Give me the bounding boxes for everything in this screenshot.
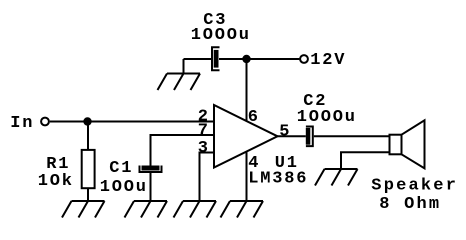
resistor R1 — [82, 150, 95, 188]
wire pin 4 — [246, 152, 248, 201]
label 12V net — [310, 51, 346, 70]
wire pin 3 — [200, 153, 215, 202]
wire R1 bottom — [87, 189, 89, 201]
label C2 value 1000u — [297, 108, 357, 127]
wire top rail right (C3 to 12V terminal) — [219, 58, 299, 60]
wire input rail (In terminal to pin 2) — [50, 121, 214, 123]
wire pin 5 (op-amp output to C2) — [278, 135, 306, 137]
pin number 5 — [279, 123, 291, 142]
wire C2 to speaker — [314, 135, 390, 137]
svg-text:1OOOu: 1OOOu — [191, 26, 251, 45]
svg-text:3: 3 — [198, 139, 210, 158]
wire pin 6 (supply to op-amp top) — [246, 59, 248, 121]
label C3 designator — [203, 11, 227, 30]
wire pin 7 and C1 top — [151, 135, 215, 166]
svg-text:12V: 12V — [310, 51, 346, 70]
wire top rail left (ground corner to C3) — [184, 58, 212, 60]
wire C1 bottom — [150, 172, 152, 201]
svg-text:8 Ohm: 8 Ohm — [379, 195, 441, 214]
svg-text:6: 6 — [248, 108, 260, 127]
ground below C1 — [125, 201, 168, 218]
label C1 designator — [109, 159, 133, 178]
ground below R1 — [62, 201, 105, 218]
svg-text:C1: C1 — [109, 159, 133, 178]
label R1 designator — [46, 155, 70, 174]
svg-text:7: 7 — [198, 121, 210, 140]
wire ground stem top-left — [183, 59, 185, 74]
ground top-left (C3 negative) — [158, 74, 201, 91]
wire R1 top — [87, 122, 89, 150]
wire speaker return to ground — [341, 152, 390, 169]
label C3 value 1000u — [191, 26, 251, 45]
svg-text:In: In — [10, 114, 34, 133]
svg-text:1OOu: 1OOu — [100, 178, 148, 197]
speaker symbol — [390, 120, 425, 168]
capacitor C2 — [306, 127, 313, 147]
pin number 3 — [198, 139, 210, 158]
svg-text:1Ok: 1Ok — [38, 172, 74, 191]
pin number 6 — [248, 108, 260, 127]
svg-text:5: 5 — [279, 123, 291, 142]
label R1 value 10k — [38, 172, 74, 191]
op-amp U1 triangle — [214, 105, 278, 168]
label C1 value 100u — [100, 178, 148, 197]
label 8 Ohm — [379, 195, 441, 214]
capacitor C1 — [140, 166, 162, 173]
label U1 designator — [275, 154, 299, 173]
svg-text:Speaker: Speaker — [371, 177, 458, 196]
label In net — [10, 114, 34, 133]
label Speaker — [371, 177, 458, 196]
pin number 2 — [198, 108, 210, 127]
pin number 7 — [198, 121, 210, 140]
node input junction — [83, 117, 91, 125]
ground near speaker — [315, 169, 358, 186]
terminal In — [41, 118, 49, 126]
svg-text:LM386: LM386 — [248, 170, 308, 189]
capacitor C3 — [212, 47, 220, 70]
ground below pin 3 — [174, 201, 217, 218]
svg-text:1OOOu: 1OOOu — [297, 108, 357, 127]
terminal 12V — [300, 55, 308, 63]
ground below pin 4 — [221, 201, 264, 218]
label U1 part LM386 — [248, 170, 308, 189]
node supply junction — [242, 55, 250, 63]
pin number 4 — [248, 154, 260, 173]
label C2 designator — [303, 92, 327, 111]
